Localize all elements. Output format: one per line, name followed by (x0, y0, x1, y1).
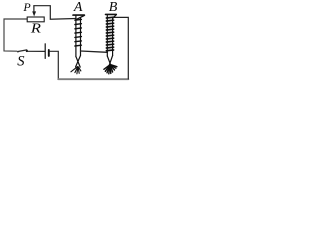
rheostat R box (27, 17, 44, 22)
svg-text:S: S (17, 54, 25, 70)
coil B dense turns (106, 17, 113, 51)
wire: switch to battery (28, 50, 45, 52)
coil A left rail (75, 16, 77, 57)
switch S (17, 50, 28, 53)
wire: battery down to bottom rail (50, 51, 59, 79)
svg-text:P: P (22, 0, 31, 14)
wire: bottom rail (faint) (58, 78, 128, 80)
coil A (fewer turns, on nail core) (73, 15, 84, 67)
first turn hook B (113, 15, 116, 18)
coil A right rail (80, 18, 82, 56)
pins attracted under coil B (104, 64, 117, 74)
wire: slider to coil A top (34, 6, 76, 20)
coil A core taper to point (76, 57, 80, 68)
svg-text:A: A (73, 0, 83, 15)
svg-text:R: R (30, 22, 41, 36)
wire: coil A to coil B (81, 51, 108, 52)
coil B core taper to point (107, 56, 111, 67)
svg-text:B: B (109, 0, 118, 15)
nail head cap B (106, 13, 117, 15)
coil B (more turns, on nail core) (106, 14, 117, 67)
coil A turns (75, 18, 82, 21)
first turn hook A (76, 16, 84, 20)
slider arrow P (32, 6, 36, 17)
coil B right rail (112, 18, 114, 56)
wire: rheostat left terminal to left rail down to switch (4, 19, 27, 51)
battery cell (45, 44, 49, 59)
nail head cap A (73, 14, 84, 16)
coil B left rail (106, 15, 108, 56)
wire: right rail up to coil B (113, 17, 128, 78)
pins attracted under coil A (71, 67, 81, 74)
